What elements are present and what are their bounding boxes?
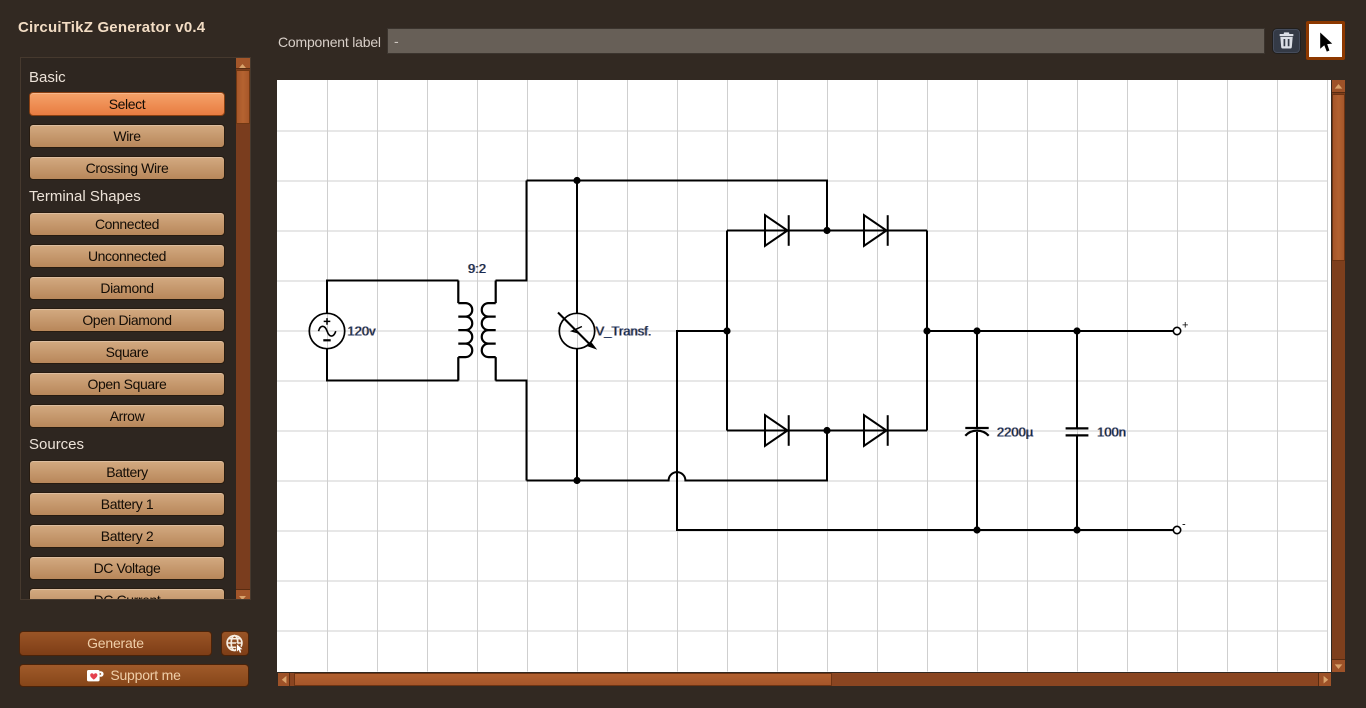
wire bridge right side — [926, 230, 928, 430]
svg-text:-: - — [1182, 518, 1186, 530]
svg-text:+: + — [1182, 319, 1188, 331]
wire capacitor C2 top lead — [1076, 331, 1078, 428]
voltmeter arrowhead — [587, 342, 596, 349]
svg-text:100n: 100n — [1097, 424, 1126, 439]
capacitor C1 plates — [965, 426, 988, 428]
wire source loop bottom — [327, 348, 459, 380]
label 2200u — [996, 424, 1034, 439]
Globe button — [221, 631, 249, 656]
voltage source V1 circle — [309, 313, 344, 348]
junction node voltmeter bottom — [573, 476, 580, 483]
voltmeter U1 circle — [559, 313, 594, 348]
diode D1 — [765, 215, 789, 246]
wire capacitor C2 bottom lead — [1076, 435, 1078, 529]
wire bottom AC rail with hop — [527, 430, 828, 480]
transformer T1 primary winding — [458, 280, 472, 380]
diode D2 — [864, 215, 888, 246]
wire capacitor C1 bottom lead — [976, 432, 978, 530]
horizontal scrollbar — [278, 673, 1332, 687]
voltmeter center chevron — [572, 326, 582, 332]
capacitor C2 plates — [1066, 428, 1089, 435]
label 9:2 — [467, 261, 486, 276]
wire voltmeter branch top — [576, 180, 578, 313]
junction node C2 top — [1073, 327, 1080, 334]
junction node C1 bottom — [973, 526, 980, 533]
svg-text:2200µ: 2200µ — [997, 424, 1034, 439]
label V_Transf. — [595, 323, 652, 338]
diode D3 — [765, 415, 789, 446]
vertical scrollbar — [1332, 80, 1346, 673]
svg-text:120v: 120v — [347, 323, 376, 338]
wire bridge left tap to negative rail — [677, 331, 1174, 530]
trash button — [1273, 29, 1300, 53]
voltage source minus — [323, 339, 330, 341]
Support me button — [19, 664, 249, 687]
voltage source sine — [319, 326, 336, 336]
wire bridge bottom row — [727, 429, 927, 431]
wire bridge right tap positive rail — [927, 330, 1174, 332]
terminal plus output — [1173, 327, 1180, 334]
wire capacitor C1 top lead — [976, 331, 978, 428]
canvas — [277, 80, 1331, 673]
wire bridge left side — [726, 230, 728, 430]
transformer T1 secondary winding — [482, 280, 496, 380]
junction node bridge bottom center — [823, 426, 830, 433]
wire bridge top row — [727, 229, 927, 231]
diode D4 — [864, 415, 888, 446]
wire top rail — [527, 180, 828, 230]
Generate button — [19, 631, 212, 656]
junction node C2 bottom — [1073, 526, 1080, 533]
wire secondary bottom — [496, 380, 527, 480]
wire source loop top — [327, 280, 459, 313]
label 100n — [1096, 424, 1126, 439]
junction node top rail — [573, 176, 580, 183]
top bar — [278, 34, 381, 50]
sidebar title — [18, 19, 205, 36]
label 120v — [347, 323, 377, 338]
junction node bridge right — [923, 327, 930, 334]
voltage source plus — [324, 318, 331, 325]
junction node bridge top center — [823, 226, 830, 233]
cursor button — [1306, 21, 1345, 60]
terminal minus output — [1173, 526, 1180, 533]
wire secondary top to rail — [496, 180, 527, 280]
sidebar panel — [20, 57, 251, 600]
sidebar scrollbar — [236, 58, 250, 599]
svg-text:V_Transf.: V_Transf. — [596, 323, 652, 338]
svg-text:9:2: 9:2 — [468, 261, 486, 276]
voltmeter arrow diagonal — [558, 312, 592, 346]
junction node bridge left — [723, 327, 730, 334]
junction node C1 top — [973, 327, 980, 334]
wire voltmeter branch bottom — [576, 348, 578, 480]
